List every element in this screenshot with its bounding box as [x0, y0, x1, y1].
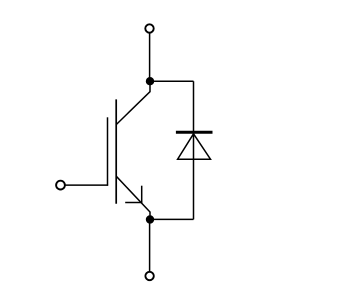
wire top terminal to collector node — [149, 33, 151, 81]
node collector junction — [146, 77, 154, 85]
terminal circle collector (top) — [145, 24, 153, 32]
terminal circle gate (left) — [56, 181, 65, 190]
wire collector node to diode branch — [150, 80, 194, 82]
IGBT gate bar — [107, 117, 109, 185]
diode anode triangle — [178, 134, 211, 159]
diode cathode bar — [176, 131, 213, 134]
emitter arrow barb horizontal — [125, 202, 142, 204]
terminal circle emitter (bottom) — [145, 272, 153, 280]
emitter arrow barb vertical — [141, 186, 143, 204]
wire emitter node to bottom terminal — [149, 220, 151, 272]
wire gate terminal to gate bar — [65, 184, 108, 186]
node emitter junction — [146, 215, 154, 223]
IGBT collector lead diagonal — [116, 81, 150, 124]
wire corner to emitter node — [150, 218, 194, 220]
IGBT body bar — [115, 99, 117, 203]
wire diode branch down through diode — [193, 81, 195, 219]
IGBT emitter lead diagonal — [116, 176, 150, 219]
